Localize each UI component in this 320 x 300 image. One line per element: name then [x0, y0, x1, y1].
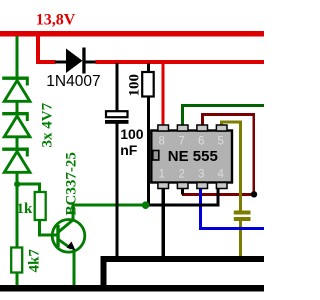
svg-text:3: 3: [198, 169, 204, 181]
wire red riser to pin 8: [162, 64, 165, 126]
zener diode D2: [2, 114, 30, 137]
wire olive pin 5 stub: [220, 122, 223, 127]
node dot zener / 1k / 4k7: [14, 181, 20, 187]
svg-text:4k7: 4k7: [27, 249, 43, 273]
wire black pin 4 riser: [216, 189, 219, 207]
wire dark green pin 7 riser: [181, 106, 184, 126]
svg-text:3x 4V7: 3x 4V7: [40, 102, 56, 147]
wire olive horizontal: [220, 121, 242, 124]
svg-text:2: 2: [179, 169, 185, 181]
wire black diode cathode: [85, 60, 96, 63]
wire 4k7 bottom to ground bus: [16, 272, 19, 286]
wire black pin 2 stub: [181, 189, 184, 195]
wire zener D3 to node and down to R3 4k7: [16, 173, 19, 248]
wire +13.8V red bus: [0, 31, 264, 37]
svg-text:1k: 1k: [17, 201, 34, 217]
wire between zener D2 and D3: [16, 137, 19, 149]
wire red horizontal to diode anode: [36, 60, 56, 64]
svg-text:8: 8: [159, 136, 165, 148]
wire green collector to trigger node: [72, 204, 148, 207]
capacitor C2 bottom plate (olive): [234, 217, 251, 221]
wire black R1 100 bottom to trigger node: [147, 96, 150, 205]
pin 6: [197, 125, 208, 131]
zener diode D1: [2, 78, 30, 101]
notch pin1 marker: [153, 151, 159, 161]
wire maroon pin 6 riser: [201, 116, 204, 126]
svg-text:NE 555: NE 555: [168, 148, 218, 165]
svg-text:6: 6: [198, 136, 204, 148]
wire dark green horizontal to right edge: [181, 104, 264, 107]
pin 2: [177, 183, 188, 189]
pin 7: [177, 125, 188, 131]
diode D1 1N4007: [66, 48, 86, 74]
wire maroon horizontal lower to pin 2: [182, 193, 255, 196]
wire transistor collector riser: [72, 205, 75, 221]
wire olive cap C2 bottom to ground: [239, 221, 242, 257]
wire black cap 100nF bottom to ground: [116, 124, 119, 257]
svg-text:5: 5: [218, 136, 224, 148]
wire red drop from bus: [36, 36, 40, 64]
wire black cap 100nF top: [116, 63, 119, 112]
zener diode D3: [2, 149, 30, 172]
wire maroon horizontal top: [201, 113, 255, 116]
ground bus vertical connector: [101, 256, 107, 286]
capacitor C1 100nF bottom plate: [105, 120, 129, 124]
wire green from bus to zener stack: [16, 36, 19, 77]
svg-text:4: 4: [218, 169, 225, 181]
wire olive vertical to cap C2: [239, 121, 242, 211]
wire black R1 100 top stub: [147, 64, 150, 73]
svg-text:nF: nF: [120, 142, 138, 158]
svg-text:100: 100: [120, 126, 144, 142]
capacitor C1 100nF top plate: [106, 111, 128, 117]
resistor R3 4k7: [11, 248, 22, 273]
svg-text:7: 7: [179, 136, 185, 148]
svg-text:1N4007: 1N4007: [46, 73, 100, 90]
wire red from diode to right edge: [96, 60, 264, 64]
resistor R1 100: [142, 72, 154, 97]
pin 1: [158, 183, 169, 189]
svg-text:BC337-25: BC337-25: [63, 152, 79, 215]
capacitor C2 top plate (olive): [234, 211, 251, 215]
resistor R2 1k: [35, 192, 46, 220]
svg-text:1: 1: [159, 169, 165, 181]
wire blue pin 3 riser: [199, 189, 202, 231]
pin 5: [216, 125, 227, 131]
wire R2 1k bottom to transistor base: [38, 220, 41, 237]
node dot trigger (green): [142, 201, 150, 209]
node dot maroon junction: [251, 191, 257, 197]
op-amp timer U1 NE555 body: [151, 131, 232, 183]
transistor Q1 BC337-25: [52, 220, 85, 253]
wire black trigger horizontal node to pin 4: [147, 204, 220, 207]
pin 3: [197, 183, 208, 189]
wire black diode anode: [55, 60, 67, 63]
svg-text:13,8V: 13,8V: [36, 11, 76, 28]
wire maroon vertical right: [252, 113, 255, 196]
wire transistor emitter to ground bus: [73, 250, 76, 286]
ground bus upper horizontal: [101, 256, 265, 262]
wire blue horizontal to right edge: [199, 227, 264, 230]
ground bus main bottom: [0, 285, 264, 292]
wire green node to R2 1k top: [17, 183, 40, 186]
svg-text:100: 100: [127, 74, 143, 97]
pin 4: [216, 183, 227, 189]
wire between zener D1 and D2: [16, 102, 19, 113]
wire black pin 1 riser to ground: [162, 189, 165, 257]
pin 8: [158, 125, 169, 131]
